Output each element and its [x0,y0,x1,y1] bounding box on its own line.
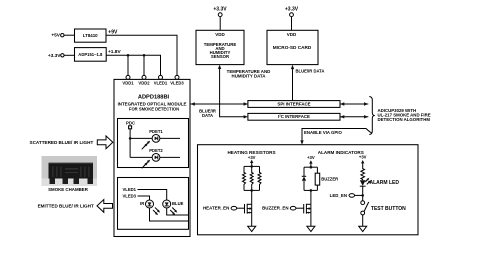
pin VLED1 [159,75,163,79]
arrowhead up into sd card [291,65,294,69]
svg-text:ALARM LED: ALARM LED [370,180,400,186]
wire buzzer source to ground [310,213,312,227]
svg-text:VLED1: VLED1 [154,81,168,86]
wire BLUE cathode return [167,208,189,215]
wire supply to temp sensor VDD [219,17,221,31]
wire temp data down to I2C [220,66,246,117]
pin VDD2 [142,75,146,79]
block arrow emitted light [97,200,113,213]
wire VLED1 to blue LED [138,190,167,201]
wire SPI to MCU double arrow [340,103,368,105]
regulator ADP151-1.8 [75,48,107,62]
junction at PDET1 [129,137,132,140]
light arrows into PDET1 [142,141,151,150]
svg-text:SCATTERED BLUE/ IR LIGHT: SCATTERED BLUE/ IR LIGHT [30,140,94,145]
svg-text:ALARM INDICATORS: ALARM INDICATORS [318,150,364,155]
svg-text:VDD2: VDD2 [138,81,150,86]
LED BLUE [163,200,171,208]
svg-text:ADPD188BI: ADPD188BI [138,95,170,101]
junction buzzer top [310,166,313,169]
svg-text:HEATER_EN: HEATER_EN [203,206,229,211]
wire VLED3 to IR LED [138,196,150,200]
wire heater to mosfet [251,190,253,204]
svg-text:HUMIDITY DATA: HUMIDITY DATA [232,73,267,78]
heater resistor bottom bar [244,189,260,191]
terminal led_en [349,194,355,198]
ground heater [248,226,256,231]
smoke chamber photo [42,156,98,186]
terminal buzzer_en [290,206,296,210]
svg-text:LED_EN: LED_EN [330,193,347,198]
transistor heater nmos [245,204,252,214]
photodiode PDET2 [152,154,160,162]
pin VLED3 [175,75,179,79]
arrowhead enable into alarm box [300,140,303,144]
wire 1.8V to VDD2 [143,55,145,75]
micro-sd card box [267,30,318,64]
light arrows into PDET2 [142,160,151,169]
alarm and heater box [198,145,419,235]
wire switch to ground [362,215,364,226]
svg-text:LT8410: LT8410 [83,33,98,38]
ground test button [359,226,367,231]
svg-text:TEST BUTTON: TEST BUTTON [371,206,406,212]
transistor buzzer nmos [304,204,311,214]
svg-text:VLED3: VLED3 [123,193,137,198]
junction heater bottom [250,189,253,192]
svg-text:+5V: +5V [51,33,60,39]
svg-text:VDD: VDD [215,32,225,37]
svg-text:+3.3V: +3.3V [48,53,61,59]
node +5V input terminal [51,33,64,39]
svg-text:SENSOR: SENSOR [211,54,230,59]
buzzer bottom bar [304,189,317,191]
LED alarm [360,180,366,186]
wire sd data down to SPI box [292,66,294,101]
heater resistor top bar [244,165,260,167]
svg-text:ADP151–1.8: ADP151–1.8 [78,52,103,57]
resistor heater R2 [250,166,253,190]
wire enable via gpio [302,129,372,144]
wire +1.8V rail [106,55,160,75]
node +3.3V sd card supply [285,7,299,17]
wire buzzer to mosfet [310,190,312,204]
junction heater top [250,165,253,168]
wire I2C to MCU double arrow [340,116,368,118]
svg-text:+3V: +3V [359,155,367,160]
photodiode PDET1 [152,135,160,143]
svg-text:SMOKE CHAMBER: SMOKE CHAMBER [48,187,89,192]
LED sub-box [118,178,189,230]
wire IR cathode return [150,208,189,221]
PDC pad [129,126,132,129]
pin VDD1 [126,75,130,79]
wire heater gate [237,207,245,209]
arrowhead right into I2C box [244,115,248,118]
svg-text:BLUE/IR DATA: BLUE/IR DATA [296,68,325,73]
node +3.3V input terminal [48,53,64,59]
svg-text:BUZZER: BUZZER [321,176,338,181]
svg-text:+3.3V: +3.3V [213,7,227,13]
wire +9V rail to VLED3 [106,35,177,75]
svg-text:FOR SMOKE DETECTION: FOR SMOKE DETECTION [129,106,179,111]
svg-text:BLUE: BLUE [172,201,184,206]
svg-text:PDC: PDC [126,120,135,125]
arrowhead up into temp sensor [218,65,221,69]
svg-text:DETECTION ALGORITHM: DETECTION ALGORITHM [378,117,431,122]
block arrow scattered light [97,136,113,149]
junction led_en [361,194,364,197]
regulator LT8410 [75,29,107,42]
wire PDET2 row [130,156,180,158]
wire PDET1 row [130,137,180,139]
svg-text:+3.3V: +3.3V [285,7,299,13]
svg-text:+9V: +9V [108,30,118,36]
photodiode sub-box [118,119,189,168]
LED IR [146,200,154,208]
spi interface box [248,101,340,108]
light arrows out of alarm led [365,178,371,185]
svg-text:+1.8V: +1.8V [108,49,121,55]
svg-text:IR: IR [140,201,144,206]
resistor heater R1 [243,166,246,190]
resistor alarm led [361,167,365,181]
light arrows out of BLUE LED [170,208,177,216]
svg-text:DATA: DATA [202,113,213,118]
wire ADPD to SPI double arrow [191,103,248,105]
junction on 1.8V rail at VDD1 [127,54,130,57]
wire buzzer gate [296,207,304,209]
svg-text:EMITTED BLUE/ IR LIGHT: EMITTED BLUE/ IR LIGHT [38,204,94,209]
svg-text:SPI INTERFACE: SPI INTERFACE [277,101,310,106]
wire led to junction [362,186,364,201]
svg-text:MICRO-SD CARD: MICRO-SD CARD [273,45,312,50]
svg-text:+3V: +3V [248,155,256,160]
wire heater source to ground [251,213,253,227]
svg-text:BUZZER_EN: BUZZER_EN [262,206,288,211]
svg-text:PDET2: PDET2 [149,148,163,153]
svg-text:PDET1: PDET1 [149,129,163,134]
svg-text:+3V: +3V [307,155,315,160]
buzzer top bar [304,166,317,168]
wire 1.8V to VDD1 [127,55,129,75]
junction buzzer bottom [310,189,313,192]
svg-text:ENABLE VIA GPIO: ENABLE VIA GPIO [304,130,342,135]
resistor heater R3 [258,166,261,190]
light arrows out of IR LED [153,208,160,216]
buzzer element [315,167,320,190]
wire +5V to LT8410 [64,34,75,36]
op module ADPD188BI box [114,79,190,236]
svg-text:VLED1: VLED1 [123,187,137,192]
svg-text:VDD1: VDD1 [122,81,134,86]
ground buzzer [307,226,315,231]
wire PDC to photodiodes [129,129,131,158]
svg-text:I²C INTERFACE: I²C INTERFACE [278,114,310,119]
svg-text:VDD: VDD [287,32,297,37]
node +3.3V temp sensor supply [213,7,227,17]
wire led_en to branch [355,194,363,196]
switch test button [361,201,369,215]
junction on 1.8V rail at VDD2 [143,54,146,57]
diode flyback [302,167,306,190]
svg-text:VLED3: VLED3 [170,81,184,86]
sensor temperature and humidity box [196,30,244,64]
i2c interface box [248,113,340,120]
brace MCU [369,97,375,135]
wire +3.3V to ADP151 [64,54,74,56]
wire supply to sd card VDD [291,17,293,31]
terminal heater_en [231,206,237,210]
